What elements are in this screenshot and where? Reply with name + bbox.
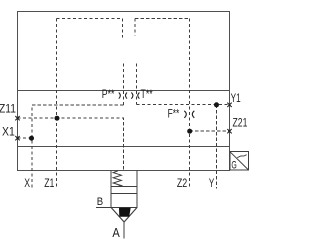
svg-text:Y1: Y1 — [231, 91, 241, 105]
svg-text:B: B — [97, 196, 103, 208]
svg-text:X1: X1 — [2, 125, 15, 139]
svg-text:X: X — [24, 176, 30, 190]
svg-text:Z2: Z2 — [177, 176, 188, 190]
svg-text:Z11: Z11 — [0, 101, 16, 115]
svg-text:Z21: Z21 — [233, 116, 248, 130]
svg-text:G: G — [231, 159, 236, 171]
svg-text:P**: P** — [102, 87, 115, 101]
svg-text:Y: Y — [209, 176, 214, 190]
svg-text:Z1: Z1 — [44, 176, 54, 190]
svg-text:A: A — [112, 226, 120, 240]
svg-text:T**: T** — [141, 87, 153, 101]
svg-text:F**: F** — [168, 106, 180, 120]
